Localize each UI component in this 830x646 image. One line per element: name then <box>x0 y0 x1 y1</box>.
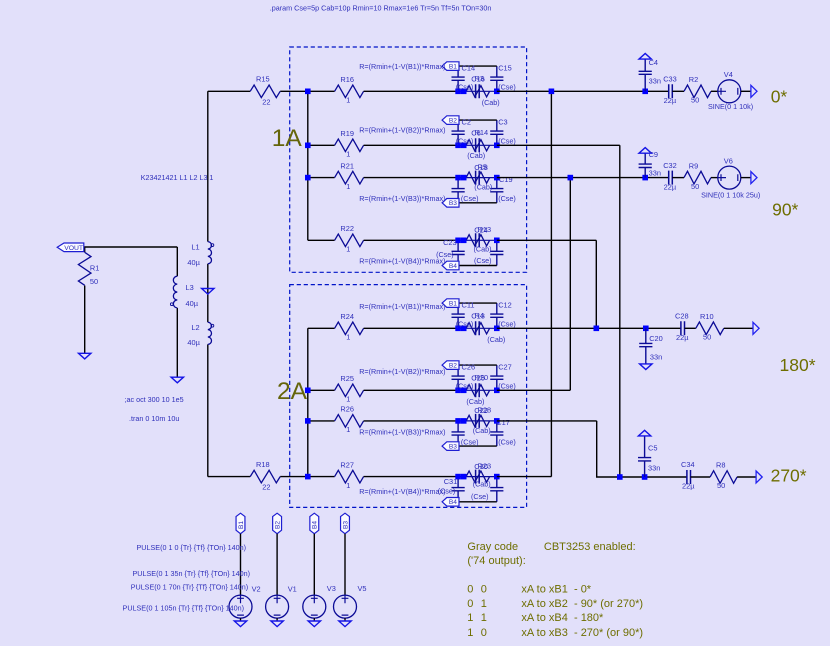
node dot netB3 left2 <box>461 418 467 424</box>
wire R16 to network <box>364 90 459 92</box>
svg-text:.param Cse=5p Cab=10p Rmin=10: .param Cse=5p Cab=10p Rmin=10 Rmax=1e6 T… <box>270 4 492 13</box>
svg-text:R=(Rmin+(1-V(B1))*Rmax): R=(Rmin+(1-V(B1))*Rmax) <box>359 302 445 311</box>
svg-text:22: 22 <box>262 483 270 492</box>
node dot netB3 right <box>494 418 500 424</box>
capacitor C24 (Cab) (netA4) <box>476 233 480 247</box>
node dot netB4 right <box>494 474 500 480</box>
svg-text:R13: R13 <box>478 225 492 234</box>
resistor R23 (netB4) <box>466 471 490 482</box>
capacitor C12 (netB1 right) <box>490 303 503 328</box>
capacitor C18 (Cab) (netA3) <box>476 171 480 185</box>
wire rail netA3 <box>458 202 497 204</box>
svg-text:L3: L3 <box>186 283 194 292</box>
svg-text:C20: C20 <box>649 334 663 343</box>
wire V1 to ground <box>276 618 278 621</box>
wire C34 to R8 <box>691 476 711 478</box>
svg-text:(Cse): (Cse) <box>456 320 474 329</box>
wire vertical 0deg net <box>550 91 552 476</box>
ground under L3 <box>171 377 183 383</box>
svg-text:R=(Rmin+(1-V(B4))*Rmax): R=(Rmin+(1-V(B4))*Rmax) <box>359 257 445 266</box>
svg-text:R9: R9 <box>689 161 698 170</box>
svg-text:1: 1 <box>346 245 350 254</box>
svg-text:22µ: 22µ <box>676 333 689 342</box>
flag B4 (pulse source) <box>310 513 319 534</box>
svg-text:R3: R3 <box>475 74 484 83</box>
svg-text:('74 output):: ('74 output): <box>467 555 525 567</box>
svg-text:R=(Rmin+(1-V(B2))*Rmax): R=(Rmin+(1-V(B2))*Rmax) <box>359 126 445 135</box>
node dot netA4 left2 <box>461 238 467 244</box>
wire V3 to ground <box>313 618 315 621</box>
resistor R21 <box>335 171 364 184</box>
node dot netA3 right <box>494 175 500 181</box>
ground under R1 <box>79 353 91 359</box>
node dot netA2 right <box>494 143 500 149</box>
resistor R3 (netA1) <box>466 86 490 97</box>
junction <box>568 175 574 181</box>
resistor R24 <box>335 322 364 335</box>
lead Cab netA1 <box>458 90 497 92</box>
wire bus to R25 <box>308 389 335 391</box>
wire R9 to V6 <box>711 177 718 179</box>
node dot netA1 left2 <box>461 89 467 95</box>
output port 0deg <box>751 85 757 97</box>
flag B2 (pulse source) <box>273 513 282 534</box>
svg-text:C17: C17 <box>496 418 510 427</box>
capacitor C2 (netA2 left) <box>452 120 465 145</box>
svg-text:50: 50 <box>691 182 699 191</box>
lead Cab netA2 <box>458 144 497 146</box>
svg-text:1: 1 <box>346 182 350 191</box>
svg-text:SINE(0 1 10k 25u): SINE(0 1 10k 25u) <box>701 191 760 200</box>
svg-text:R24: R24 <box>340 312 354 321</box>
svg-text:B2: B2 <box>449 118 457 125</box>
wire C28 to R10 <box>685 327 696 329</box>
svg-text:PULSE(0 1 70n {Tr} {Tf} {TOn}: PULSE(0 1 70n {Tr} {Tf} {TOn} 140n) <box>131 582 248 591</box>
ground (rotated) above C9 <box>639 148 651 154</box>
svg-text:(Cse): (Cse) <box>498 382 516 391</box>
junction <box>643 326 649 332</box>
wire row A1 to C33 <box>497 90 669 92</box>
svg-text:R2: R2 <box>689 75 698 84</box>
output port 90deg <box>751 172 757 184</box>
wire bus to R26 <box>308 420 335 422</box>
wire rail netA4 <box>458 265 497 267</box>
ground under V2 <box>234 621 246 627</box>
svg-text:(Cab): (Cab) <box>474 245 492 254</box>
output port 180deg <box>753 322 759 334</box>
resistor R25 <box>335 384 364 397</box>
svg-text:R28: R28 <box>478 406 492 415</box>
svg-text:xA to xB1 - 0*: xA to xB1 - 0* <box>521 584 591 596</box>
svg-text:1: 1 <box>346 333 350 342</box>
svg-text:R=(Rmin+(1-V(B2))*Rmax): R=(Rmin+(1-V(B2))*Rmax) <box>359 367 445 376</box>
svg-text:40µ: 40µ <box>186 299 199 308</box>
inductor L1 <box>208 242 214 264</box>
wire to L3 <box>176 247 178 276</box>
svg-text:180*: 180* <box>780 355 816 375</box>
flag B2 (netB2) <box>442 361 459 370</box>
svg-text:1: 1 <box>346 425 350 434</box>
svg-text:C19: C19 <box>499 175 513 184</box>
svg-text:V4: V4 <box>724 70 733 79</box>
capacitor C9 <box>639 153 652 177</box>
capacitor C4 <box>639 59 652 91</box>
flag B1 (pulse source) <box>236 513 245 534</box>
svg-text:V5: V5 <box>358 584 367 593</box>
svg-text:33n: 33n <box>649 76 661 85</box>
svg-text:R18: R18 <box>256 460 270 469</box>
svg-text:C28: C28 <box>675 312 689 321</box>
wire B4 to V3 <box>313 534 315 595</box>
svg-text:33n: 33n <box>648 463 660 472</box>
lead Cab netB4 <box>458 476 497 478</box>
wire L1-L2 center tap <box>207 264 209 322</box>
wire C33 to R2 <box>672 90 684 92</box>
capacitor C5 <box>638 436 651 477</box>
svg-text:C4: C4 <box>649 58 658 67</box>
svg-text:B2: B2 <box>275 521 282 529</box>
svg-text:R5: R5 <box>478 162 487 171</box>
wire row B1 to C28 <box>497 327 681 329</box>
voltage source V1 <box>266 595 289 618</box>
svg-text:C23: C23 <box>443 238 457 247</box>
svg-text:50: 50 <box>717 481 725 490</box>
svg-text:(Cab): (Cab) <box>466 397 484 406</box>
capacitor C22 (Cab) (netB3) <box>476 414 480 428</box>
svg-text:(Cab): (Cab) <box>467 151 485 160</box>
lead Cab netB2 <box>458 389 497 391</box>
svg-text:SINE(0 1 10k): SINE(0 1 10k) <box>708 102 753 111</box>
svg-text:C11: C11 <box>462 301 475 310</box>
svg-text:C14: C14 <box>462 64 476 73</box>
node dot netB4 left2 <box>461 474 467 480</box>
capacitor C16 (Cab) (netA1) <box>476 84 480 98</box>
wire 1A bus <box>307 91 309 240</box>
voltage source V4 <box>718 80 741 103</box>
svg-text:R20: R20 <box>475 373 489 382</box>
ground under V1 <box>271 621 283 627</box>
capacitor Cse (netA3 left) <box>452 178 465 203</box>
resistor R4 (netB1) <box>466 323 490 334</box>
capacitor C3 (netA2 right) <box>490 120 503 145</box>
svg-text:(Cse): (Cse) <box>456 83 474 92</box>
wire R2 to V4 <box>711 90 718 92</box>
svg-text:B3: B3 <box>449 200 457 207</box>
wire row B3 right <box>497 420 597 422</box>
wire vertical A4-B1 <box>595 240 597 328</box>
svg-text:(Cab): (Cab) <box>474 183 492 192</box>
svg-text:(Cse): (Cse) <box>474 256 492 265</box>
wire B2 to V1 <box>276 534 278 595</box>
wire R10 to port <box>724 327 753 329</box>
svg-text:1: 1 <box>467 627 473 639</box>
ground (rotated) above C5 <box>638 430 650 436</box>
capacitor C30 (Cab) (netB4) <box>476 470 480 484</box>
svg-text:0*: 0* <box>771 87 788 107</box>
svg-text:L1: L1 <box>191 243 199 252</box>
wire rail netB3 <box>458 445 497 447</box>
svg-text:C5: C5 <box>648 444 657 453</box>
svg-text:1: 1 <box>346 96 350 105</box>
svg-text:2A: 2A <box>277 378 308 405</box>
wire VOUT net <box>84 246 178 248</box>
svg-text:VOUT: VOUT <box>64 245 83 252</box>
capacitor Cse (netB4 right) <box>490 477 503 502</box>
node dot netB3 left <box>455 418 461 424</box>
wire R26 to network <box>364 420 459 422</box>
svg-text:R4: R4 <box>475 311 484 320</box>
svg-text:R=(Rmin+(1-V(B3))*Rmax): R=(Rmin+(1-V(B3))*Rmax) <box>359 194 445 203</box>
capacitor C26 (netB2 left) <box>452 365 465 390</box>
svg-text:(Cse): (Cse) <box>498 438 516 447</box>
svg-text:xA to xB4 - 180*: xA to xB4 - 180* <box>521 612 604 624</box>
resistor R1 <box>78 252 91 285</box>
svg-text:B4: B4 <box>312 521 319 529</box>
lead Cab netB1 <box>458 327 497 329</box>
svg-text:1A: 1A <box>272 125 303 152</box>
capacitor Cse (netB4 left) <box>452 477 465 502</box>
svg-text:R10: R10 <box>700 312 714 321</box>
wire B3 to V5 <box>344 534 346 595</box>
svg-text:C15: C15 <box>498 64 512 73</box>
svg-text:C27: C27 <box>498 363 512 372</box>
svg-text:R25: R25 <box>340 374 354 383</box>
svg-text:1: 1 <box>481 612 487 624</box>
lead Cab netA4 <box>458 239 497 241</box>
svg-text:22µ: 22µ <box>664 182 677 191</box>
wire R19 to network <box>364 144 459 146</box>
resistor R10 <box>696 322 724 335</box>
wire rail netA1 <box>458 65 497 67</box>
resistor R20 (netB2) <box>466 385 490 396</box>
svg-text:22µ: 22µ <box>664 96 677 105</box>
flag B2 (netA2) <box>442 116 459 125</box>
wire row B2 right <box>497 389 571 391</box>
svg-text:B1: B1 <box>449 64 457 71</box>
wire V2 to ground <box>240 618 242 621</box>
svg-text:B1: B1 <box>449 301 457 308</box>
svg-text:PULSE(0 1 35n {Tr} {Tf} {TOn}: PULSE(0 1 35n {Tr} {Tf} {TOn} 140n) <box>133 569 250 578</box>
junction <box>305 418 311 424</box>
junction <box>305 175 311 181</box>
svg-text:B3: B3 <box>449 444 457 451</box>
wire to R15 <box>208 90 250 92</box>
wire R18 to bus 2A <box>280 476 308 478</box>
svg-text:xA to xB3 - 270* (or 90*): xA to xB3 - 270* (or 90*) <box>521 627 643 639</box>
capacitor C34 <box>687 470 691 484</box>
capacitor Cse (netA4 left) <box>452 240 465 265</box>
wire left bus upper <box>207 91 209 241</box>
wire bus to R19 <box>308 144 335 146</box>
svg-text:B2: B2 <box>449 363 457 370</box>
wire bus to R27 <box>308 476 335 478</box>
svg-text:;ac oct 300 10 1e5: ;ac oct 300 10 1e5 <box>125 395 184 404</box>
capacitor C13 (Cab) (netB1) <box>476 321 480 335</box>
wire row A4 right <box>497 239 597 241</box>
wire vertical from A2 <box>619 145 621 477</box>
wire vertical A3-B2 <box>569 178 571 391</box>
resistor R2 <box>684 85 711 98</box>
capacitor Cse (netA4 right) <box>490 240 503 265</box>
group box 1A (dashed) <box>290 47 527 272</box>
capacitor C11 (netB1 left) <box>452 303 465 328</box>
svg-text:(Cse): (Cse) <box>498 320 516 329</box>
resistor R13 (netA4) <box>466 235 490 246</box>
svg-text:90*: 90* <box>772 200 798 220</box>
svg-text:C2: C2 <box>462 118 471 127</box>
capacitor C28 <box>681 321 685 335</box>
svg-text:R8: R8 <box>716 461 725 470</box>
svg-text:R=(Rmin+(1-V(B4))*Rmax): R=(Rmin+(1-V(B4))*Rmax) <box>359 487 445 496</box>
svg-text:270*: 270* <box>771 466 807 486</box>
node dot netB1 left <box>455 326 461 332</box>
svg-text:C32: C32 <box>663 161 677 170</box>
svg-text:V3: V3 <box>327 584 336 593</box>
voltage source V3 <box>303 595 326 618</box>
wire R21 to network <box>364 177 459 179</box>
capacitor Cse (netA3 right) <box>490 178 503 203</box>
wire 270deg net <box>597 421 687 477</box>
node dot netB2 left2 <box>461 388 467 394</box>
svg-text:(Cse): (Cse) <box>456 382 474 391</box>
svg-text:33n: 33n <box>649 169 661 178</box>
wire rail netB1 <box>458 302 497 304</box>
flag B4 (netA4) <box>442 261 459 270</box>
node dot netB1 right <box>494 326 500 332</box>
flag B1 (netB1) <box>442 299 459 308</box>
capacitor C32 <box>669 171 673 185</box>
voltage source V5 <box>334 595 357 618</box>
svg-text:(Cab): (Cab) <box>473 426 491 435</box>
node dot netA2 left <box>455 143 461 149</box>
resistor R15 <box>250 85 280 98</box>
svg-text:R19: R19 <box>340 129 354 138</box>
wire 2A bus <box>307 328 309 476</box>
svg-text:L2: L2 <box>191 323 199 332</box>
junction <box>642 474 648 480</box>
wire B1 to V2 <box>240 534 242 595</box>
svg-text:0: 0 <box>467 598 473 610</box>
junction <box>305 89 311 95</box>
svg-text:22: 22 <box>262 97 270 106</box>
wire R15 to bus 1A <box>280 90 308 92</box>
svg-text:(Cse): (Cse) <box>498 137 516 146</box>
wire bus to R16 <box>308 90 335 92</box>
node dot netA2 left2 <box>461 143 467 149</box>
svg-text:(Cse): (Cse) <box>498 194 516 203</box>
svg-text:(Cse): (Cse) <box>461 194 479 203</box>
svg-text:CBT3253 enabled:: CBT3253 enabled: <box>544 541 636 553</box>
wire rail netB2 <box>458 364 497 366</box>
junction <box>594 326 600 332</box>
wire bus to R21 <box>308 177 335 179</box>
lead Cab netB3 <box>458 420 497 422</box>
wire to R18 <box>208 476 250 478</box>
svg-text:C26: C26 <box>462 363 476 372</box>
svg-text:B1: B1 <box>238 521 245 529</box>
svg-text:(Cse): (Cse) <box>471 492 489 501</box>
svg-text:C3: C3 <box>498 118 507 127</box>
junction <box>305 474 311 480</box>
resistor R9 <box>684 171 711 184</box>
svg-text:1: 1 <box>346 150 350 159</box>
voltage source V6 <box>718 166 741 189</box>
svg-text:(Cab): (Cab) <box>473 480 491 489</box>
wire R22 to network <box>364 239 459 241</box>
wire V6 to port <box>741 177 751 179</box>
inductor L3 <box>170 276 177 308</box>
capacitor C6 (Cab) (netA2) <box>476 138 480 152</box>
wire VOUT to R1 <box>84 247 86 252</box>
ground tap between L1 and L2 <box>202 289 214 295</box>
wire R8 to port <box>737 476 756 478</box>
svg-text:C33: C33 <box>663 75 677 84</box>
junction <box>305 143 311 149</box>
wire R24 to network <box>364 327 459 329</box>
resistor R18 <box>250 470 280 483</box>
svg-text:R21: R21 <box>340 161 354 170</box>
svg-text:R14: R14 <box>475 128 489 137</box>
svg-text:.tran 0 10m 10u: .tran 0 10m 10u <box>129 414 179 423</box>
capacitor Cse (netB3 right) <box>490 421 503 446</box>
svg-text:V1: V1 <box>288 585 297 594</box>
wire row A3 to C32 <box>497 177 669 179</box>
svg-text:50: 50 <box>703 333 711 342</box>
wire V5 to ground <box>344 618 346 621</box>
svg-text:B3: B3 <box>342 521 349 529</box>
wire left bus lower <box>207 344 209 476</box>
svg-text:R1: R1 <box>90 264 99 273</box>
svg-text:R16: R16 <box>340 75 354 84</box>
node dot netA4 right <box>494 238 500 244</box>
resistor R28 (netB3) <box>466 415 490 426</box>
svg-text:R=(Rmin+(1-V(B1))*Rmax): R=(Rmin+(1-V(B1))*Rmax) <box>359 62 445 71</box>
svg-text:1: 1 <box>467 612 473 624</box>
svg-text:C34: C34 <box>681 460 695 469</box>
resistor R16 <box>335 85 364 98</box>
svg-text:V6: V6 <box>724 157 733 166</box>
svg-text:50: 50 <box>90 277 98 286</box>
group box 2A (dashed) <box>290 285 527 508</box>
ground (rotated) above C4 <box>639 54 651 60</box>
svg-text:50: 50 <box>691 96 699 105</box>
wire R25 to network <box>364 389 459 391</box>
svg-text:C31: C31 <box>444 477 458 486</box>
capacitor C25 (Cab) (netB2) <box>476 383 480 397</box>
capacitor C33 <box>669 84 673 98</box>
svg-text:PULSE(0 1 105n {Tr} {Tf} {TOn}: PULSE(0 1 105n {Tr} {Tf} {TOn} 140n) <box>123 603 244 612</box>
svg-text:C9: C9 <box>649 150 658 159</box>
svg-text:1: 1 <box>346 481 350 490</box>
inductor L2 <box>208 322 214 344</box>
wire row A2 right <box>497 144 620 146</box>
wire V4 to port <box>741 90 751 92</box>
svg-text:R23: R23 <box>478 461 492 470</box>
node dot netA1 right <box>494 89 500 95</box>
node dot netA3 left <box>455 175 461 181</box>
svg-text:(Cse): (Cse) <box>461 438 479 447</box>
resistor R22 <box>335 234 364 247</box>
wire L3 to ground <box>176 308 178 377</box>
capacitor Cse (netB3 left) <box>452 421 465 446</box>
wire bus to R24 <box>308 327 335 329</box>
svg-text:R26: R26 <box>340 405 354 414</box>
capacitor C27 (netB2 right) <box>490 365 503 390</box>
svg-text:R22: R22 <box>340 224 354 233</box>
node dot netB1 left2 <box>461 326 467 332</box>
junction <box>305 388 311 394</box>
svg-text:1: 1 <box>481 598 487 610</box>
